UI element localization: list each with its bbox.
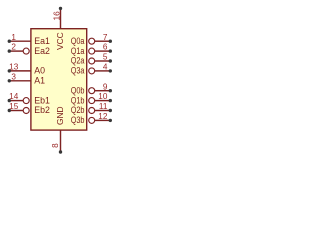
svg-text:15: 15 <box>9 102 19 111</box>
pin 10 Q1b (inverted output, right) <box>71 92 112 105</box>
svg-text:A1: A1 <box>34 76 45 86</box>
pin 5 Q2a (inverted output, right) <box>71 53 112 66</box>
svg-text:4: 4 <box>103 63 108 72</box>
pin 14 Eb1 (inverted input, left) <box>8 92 50 105</box>
svg-text:VCC: VCC <box>55 32 65 50</box>
svg-text:Q1b: Q1b <box>71 95 85 105</box>
svg-text:Eb2: Eb2 <box>34 105 50 115</box>
pin 2 Ea2 (inverted input, left) <box>8 43 50 56</box>
svg-text:12: 12 <box>98 112 108 121</box>
svg-text:1: 1 <box>11 33 16 42</box>
svg-text:14: 14 <box>9 92 19 101</box>
svg-text:Q2a: Q2a <box>71 56 85 66</box>
pin 3 A1 (input, left) <box>8 72 46 85</box>
svg-text:8: 8 <box>51 143 60 148</box>
svg-text:Eb1: Eb1 <box>34 95 50 105</box>
pin 6 Q1a (inverted output, right) <box>71 43 112 56</box>
svg-text:Q0a: Q0a <box>71 36 85 46</box>
pin 15 Eb2 (inverted input, left) <box>8 102 50 115</box>
IC body U1 <box>31 29 87 130</box>
pin 1 Ea1 (input, left) <box>8 33 50 46</box>
svg-text:Q3a: Q3a <box>71 66 85 76</box>
pin 16 VCC (power input, top) <box>52 7 65 50</box>
svg-text:9: 9 <box>103 82 108 91</box>
svg-text:Ea2: Ea2 <box>34 46 50 56</box>
svg-text:10: 10 <box>98 92 108 101</box>
svg-text:Ea1: Ea1 <box>34 36 50 46</box>
pin 11 Q2b (inverted output, right) <box>71 102 112 115</box>
svg-text:Q2b: Q2b <box>71 105 85 115</box>
pin 4 Q3a (inverted output, right) <box>71 63 112 76</box>
pin 13 A0 (input, left) <box>8 63 46 76</box>
pin 7 Q0a (inverted output, right) <box>71 33 112 46</box>
svg-text:13: 13 <box>9 63 19 72</box>
svg-text:11: 11 <box>99 102 108 111</box>
svg-text:Q0b: Q0b <box>71 85 85 95</box>
svg-text:16: 16 <box>52 11 62 21</box>
svg-text:7: 7 <box>103 33 108 42</box>
svg-text:GND: GND <box>55 106 65 125</box>
svg-text:6: 6 <box>103 43 108 52</box>
svg-text:Q3b: Q3b <box>71 115 85 125</box>
svg-text:A0: A0 <box>34 66 45 76</box>
svg-text:3: 3 <box>11 72 16 81</box>
pin 12 Q3b (inverted output, right) <box>71 112 112 125</box>
pin 9 Q0b (inverted output, right) <box>71 82 112 95</box>
svg-text:2: 2 <box>11 43 16 52</box>
svg-text:5: 5 <box>103 53 108 62</box>
pin 8 GND (power input, bottom) <box>51 106 65 153</box>
svg-text:Q1a: Q1a <box>71 46 85 56</box>
